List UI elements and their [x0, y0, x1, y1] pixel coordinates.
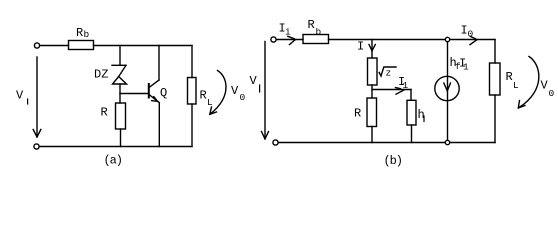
terminal top-left (b): [271, 37, 276, 42]
wire RL to bottom (a): [191, 104, 193, 147]
svg-text:R: R: [506, 70, 513, 84]
svg-text:z: z: [386, 68, 392, 79]
wire corner down to RL (b): [494, 40, 496, 64]
transistor Q emitter with arrow: [149, 95, 159, 103]
svg-text:R: R: [101, 106, 108, 120]
subscript bar of VI (b): [259, 85, 261, 92]
current source branch line: [447, 40, 449, 143]
terminal bottom-left (b): [273, 140, 278, 145]
svg-text:R: R: [200, 89, 207, 103]
resistor R (b): [367, 98, 377, 127]
wire top (b) left: [277, 39, 304, 41]
current source circle hf I1: [435, 76, 459, 100]
wire R to bottom (a): [120, 129, 122, 147]
svg-text:(a): (a): [104, 154, 122, 168]
branch I lead: [371, 40, 373, 59]
zener DZ triangle: [113, 77, 127, 85]
rz to node vertical: [371, 85, 373, 98]
wire node to base: [120, 93, 149, 95]
V0 arc (b): [519, 57, 539, 108]
svg-text:L: L: [207, 97, 213, 108]
junction node top: [445, 37, 449, 41]
svg-text:1: 1: [463, 62, 469, 73]
terminal bottom-left (a): [34, 144, 39, 149]
resistor R (a): [116, 103, 126, 129]
svg-text:V: V: [541, 79, 549, 93]
svg-text:b: b: [316, 27, 322, 38]
wire R to bottom (b): [371, 127, 373, 143]
subscript bar of hI: [423, 116, 425, 122]
terminal top-left (a): [34, 43, 39, 48]
wire node to hI branch: [372, 89, 411, 91]
zener to node vertical: [119, 84, 121, 103]
svg-text:b: b: [84, 29, 90, 40]
resistor rz (b): [368, 58, 378, 85]
svg-text:I: I: [357, 40, 364, 54]
resistor RL (b): [490, 63, 501, 95]
svg-text:R: R: [308, 18, 315, 32]
resistor hI (b): [407, 100, 416, 125]
svg-text:L: L: [513, 80, 519, 91]
current source arrow head: [444, 83, 448, 91]
zener DZ cathode bar: [112, 64, 126, 66]
svg-text:0: 0: [468, 29, 474, 40]
svg-text:Q: Q: [160, 86, 167, 100]
wire bottom (a): [40, 146, 193, 148]
svg-text:R: R: [354, 107, 361, 121]
I arrow head: [369, 45, 372, 51]
svg-text:V: V: [250, 74, 258, 88]
svg-text:V: V: [16, 89, 24, 103]
wire top (a) Rb to corner: [94, 45, 193, 47]
resistor RL (a): [188, 78, 197, 105]
svg-text:V: V: [231, 84, 239, 98]
zener DZ lead from top wire: [119, 46, 121, 66]
I0 current arrow: [470, 40, 477, 45]
sqrt z radical: [379, 67, 396, 76]
junction node bottom: [445, 140, 449, 144]
Ii current arrow: [290, 40, 296, 45]
wire top (a) left of Rb: [40, 45, 69, 47]
svg-text:i: i: [285, 27, 291, 38]
zener DZ diagonal: [119, 65, 126, 76]
svg-text:0: 0: [240, 92, 246, 103]
svg-text:0: 0: [549, 88, 555, 99]
resistor Rb (b): [303, 35, 329, 44]
svg-text:DZ: DZ: [94, 68, 108, 82]
wire top (b) Rb to corner: [329, 39, 496, 41]
svg-text:1: 1: [403, 80, 409, 91]
VI arrow (a): [36, 57, 38, 137]
wire bottom (b): [279, 142, 496, 144]
V0 arc (a): [211, 71, 227, 114]
resistor Rb (a): [69, 41, 94, 50]
hI branch corner down: [410, 90, 412, 101]
transistor Q collector: [149, 80, 159, 88]
wire corner down to RL (a): [191, 46, 193, 78]
wire RL to bottom (b): [494, 95, 496, 143]
wire hI to bottom (b): [411, 125, 413, 143]
svg-text:R: R: [76, 26, 83, 40]
VI arrow (b): [264, 42, 266, 139]
transistor Q base bar: [148, 84, 150, 98]
subscript bar of VI (a): [27, 99, 29, 104]
svg-text:(b): (b): [384, 154, 402, 168]
I1 current arrow: [396, 90, 404, 94]
